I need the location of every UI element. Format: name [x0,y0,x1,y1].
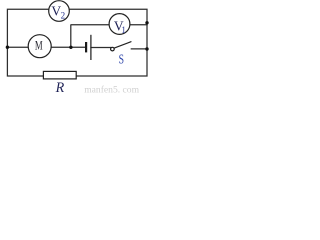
svg-text:S: S [119,51,124,66]
svg-text:M: M [35,38,43,53]
svg-text:1: 1 [121,25,126,35]
svg-text:manfen5. com: manfen5. com [84,84,139,95]
svg-text:2: 2 [61,11,66,21]
svg-text:R: R [55,79,65,95]
